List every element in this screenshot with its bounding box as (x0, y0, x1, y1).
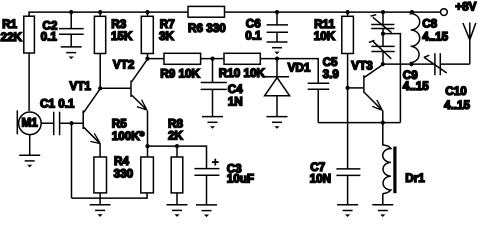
svg-text:R10 10K: R10 10K (219, 67, 266, 80)
svg-text:15K: 15K (111, 30, 133, 43)
svg-text:Dr1: Dr1 (405, 172, 425, 185)
junction R8 tap (175, 144, 179, 148)
junction VT3 emitter node (381, 121, 385, 125)
wire R9 to R10 (201, 58, 224, 60)
wire R3 to VT1 collector node (99, 54, 101, 89)
inductor L tank coil (411, 12, 420, 64)
resistor R3 15K (94, 12, 133, 53)
svg-text:M1: M1 (22, 117, 39, 130)
wire tank node to antenna (crosses divider wire) (383, 63, 435, 65)
svg-text:100K*: 100K* (112, 130, 145, 143)
capacitor C2 0.1 (41, 12, 84, 47)
trimmer capacitor C10 4..15 (424, 53, 471, 112)
wire VT1 collector to VT2 base (100, 87, 131, 89)
svg-text:R1: R1 (2, 18, 17, 31)
junction rail-C8 (381, 10, 385, 14)
junction rail-C2 (69, 10, 73, 14)
wire R10 to C5 corner (260, 59, 318, 84)
resistor R9 10K (160, 53, 200, 80)
svg-text:4..15: 4..15 (422, 30, 448, 43)
junction rail-C6 (275, 10, 279, 14)
choke Dr1 (383, 123, 426, 205)
wire VT3 emitter down (382, 110, 384, 122)
resistor R7 3K (141, 12, 174, 53)
svg-text:VT1: VT1 (70, 80, 92, 93)
+8V terminal (441, 9, 448, 16)
svg-text:C10: C10 (445, 85, 467, 98)
microphone M1 (17, 110, 54, 155)
capacitor C4 1N (201, 59, 243, 117)
svg-text:10uF: 10uF (227, 172, 254, 185)
wire R1 to M1 (28, 53, 30, 111)
svg-text:3K: 3K (159, 30, 175, 43)
junction VT3 base node (346, 86, 350, 90)
svg-text:10N: 10N (310, 173, 331, 186)
ground C6 (267, 42, 288, 54)
trimmer capacitor C8 4..15 (371, 12, 449, 43)
wire VT1 emitter to R4 (99, 144, 101, 158)
svg-text:R8: R8 (168, 117, 183, 130)
ground M1 (19, 155, 40, 167)
resistor R10 10K (219, 53, 266, 80)
wire VT1 base feedback down (71, 123, 73, 198)
wire emitter node to C3 corner (148, 146, 207, 169)
junction R9-R10-C4 (210, 57, 214, 61)
junction C8-C9 divider node (381, 31, 385, 35)
antenna W1 (463, 23, 476, 65)
wire +8V top supply rail (28, 11, 440, 13)
svg-text:R4: R4 (114, 155, 129, 168)
ground R4 (90, 205, 111, 217)
resistor R4 330 (94, 155, 134, 205)
resistor R8 2K (168, 117, 184, 204)
ground C2 (61, 47, 82, 59)
junction rail-R3 (98, 10, 102, 14)
svg-text:C4: C4 (228, 83, 243, 96)
junction VD1 node (275, 57, 279, 61)
capacitor C5 3.9 (308, 56, 340, 123)
resistor R6 330 (188, 6, 226, 35)
junction rail-L coil (410, 10, 414, 14)
svg-text:R5: R5 (112, 118, 127, 131)
resistor R1 22K (1, 12, 35, 53)
ground R8 (167, 205, 188, 217)
junction coil bottom (409, 62, 413, 66)
svg-text:VD1: VD1 (288, 62, 311, 75)
svg-text:0.1: 0.1 (41, 31, 58, 44)
wire R11 to VT3 base node (347, 54, 349, 88)
svg-text:R3: R3 (111, 18, 126, 31)
wire R7 node to R9 (148, 58, 165, 60)
transistor VT2 (113, 59, 147, 111)
svg-text:3.9: 3.9 (323, 68, 340, 81)
resistor R11 10K (314, 12, 354, 53)
wire feedback bus to R5 (crosses R4 lead) (72, 193, 148, 198)
ground VD1 (267, 117, 288, 129)
trimmer capacitor C9 4..15 (369, 34, 429, 93)
svg-text:1N: 1N (228, 96, 243, 109)
junction VT1 collector node (98, 86, 102, 90)
junction rail-R7 (145, 10, 149, 14)
junction VT2 collector node (145, 57, 149, 61)
resistor R5 100K* (112, 118, 154, 193)
junction VT2 emitter-R5 (145, 144, 149, 148)
svg-text:22K: 22K (1, 31, 23, 44)
svg-text:C1 0.1: C1 0.1 (40, 97, 75, 110)
transistor VT1 (60, 80, 101, 144)
svg-text:2K: 2K (168, 130, 184, 143)
wire VT2 emitter to R5/R8/C3 node (147, 110, 149, 146)
svg-text:+8V: +8V (455, 1, 476, 14)
wire C5 to VT3 emitter node (crosses R11-C7 wire) (318, 122, 400, 124)
wire R7 to VT2 collector node (147, 54, 149, 59)
svg-text:VT2: VT2 (113, 59, 135, 72)
svg-text:4..15: 4..15 (403, 80, 429, 93)
wire divider node to emitter (crosses collector wire) (383, 34, 400, 123)
ground C7 (337, 205, 358, 217)
svg-text:10K: 10K (314, 30, 336, 43)
svg-text:0.1: 0.1 (245, 29, 262, 42)
capacitor C3 10uF electrolytic (194, 159, 254, 205)
svg-text:C8: C8 (422, 18, 437, 31)
junction C1-VT1 base-R5 (69, 121, 73, 125)
capacitor C6 0.1 (245, 12, 288, 42)
ground C3 (196, 205, 217, 217)
ground Dr1 (372, 205, 393, 217)
svg-text:4..15: 4..15 (444, 99, 470, 112)
transistor VT3 (348, 60, 383, 111)
svg-text:VT3: VT3 (351, 60, 373, 73)
svg-text:R6 330: R6 330 (188, 22, 226, 35)
capacitor C7 10N (310, 161, 361, 205)
capacitor C1 0.1 (40, 97, 75, 135)
junction VT3 collector tank node (381, 62, 385, 66)
junction rail-R11 (346, 10, 350, 14)
svg-text:330: 330 (114, 168, 134, 181)
ground C4 (202, 117, 223, 129)
varicap diode VD1 (265, 59, 311, 117)
svg-text:R9 10K: R9 10K (160, 68, 200, 81)
wire VT3 base node down to C7 (crossover of emitter wire) (347, 88, 349, 169)
